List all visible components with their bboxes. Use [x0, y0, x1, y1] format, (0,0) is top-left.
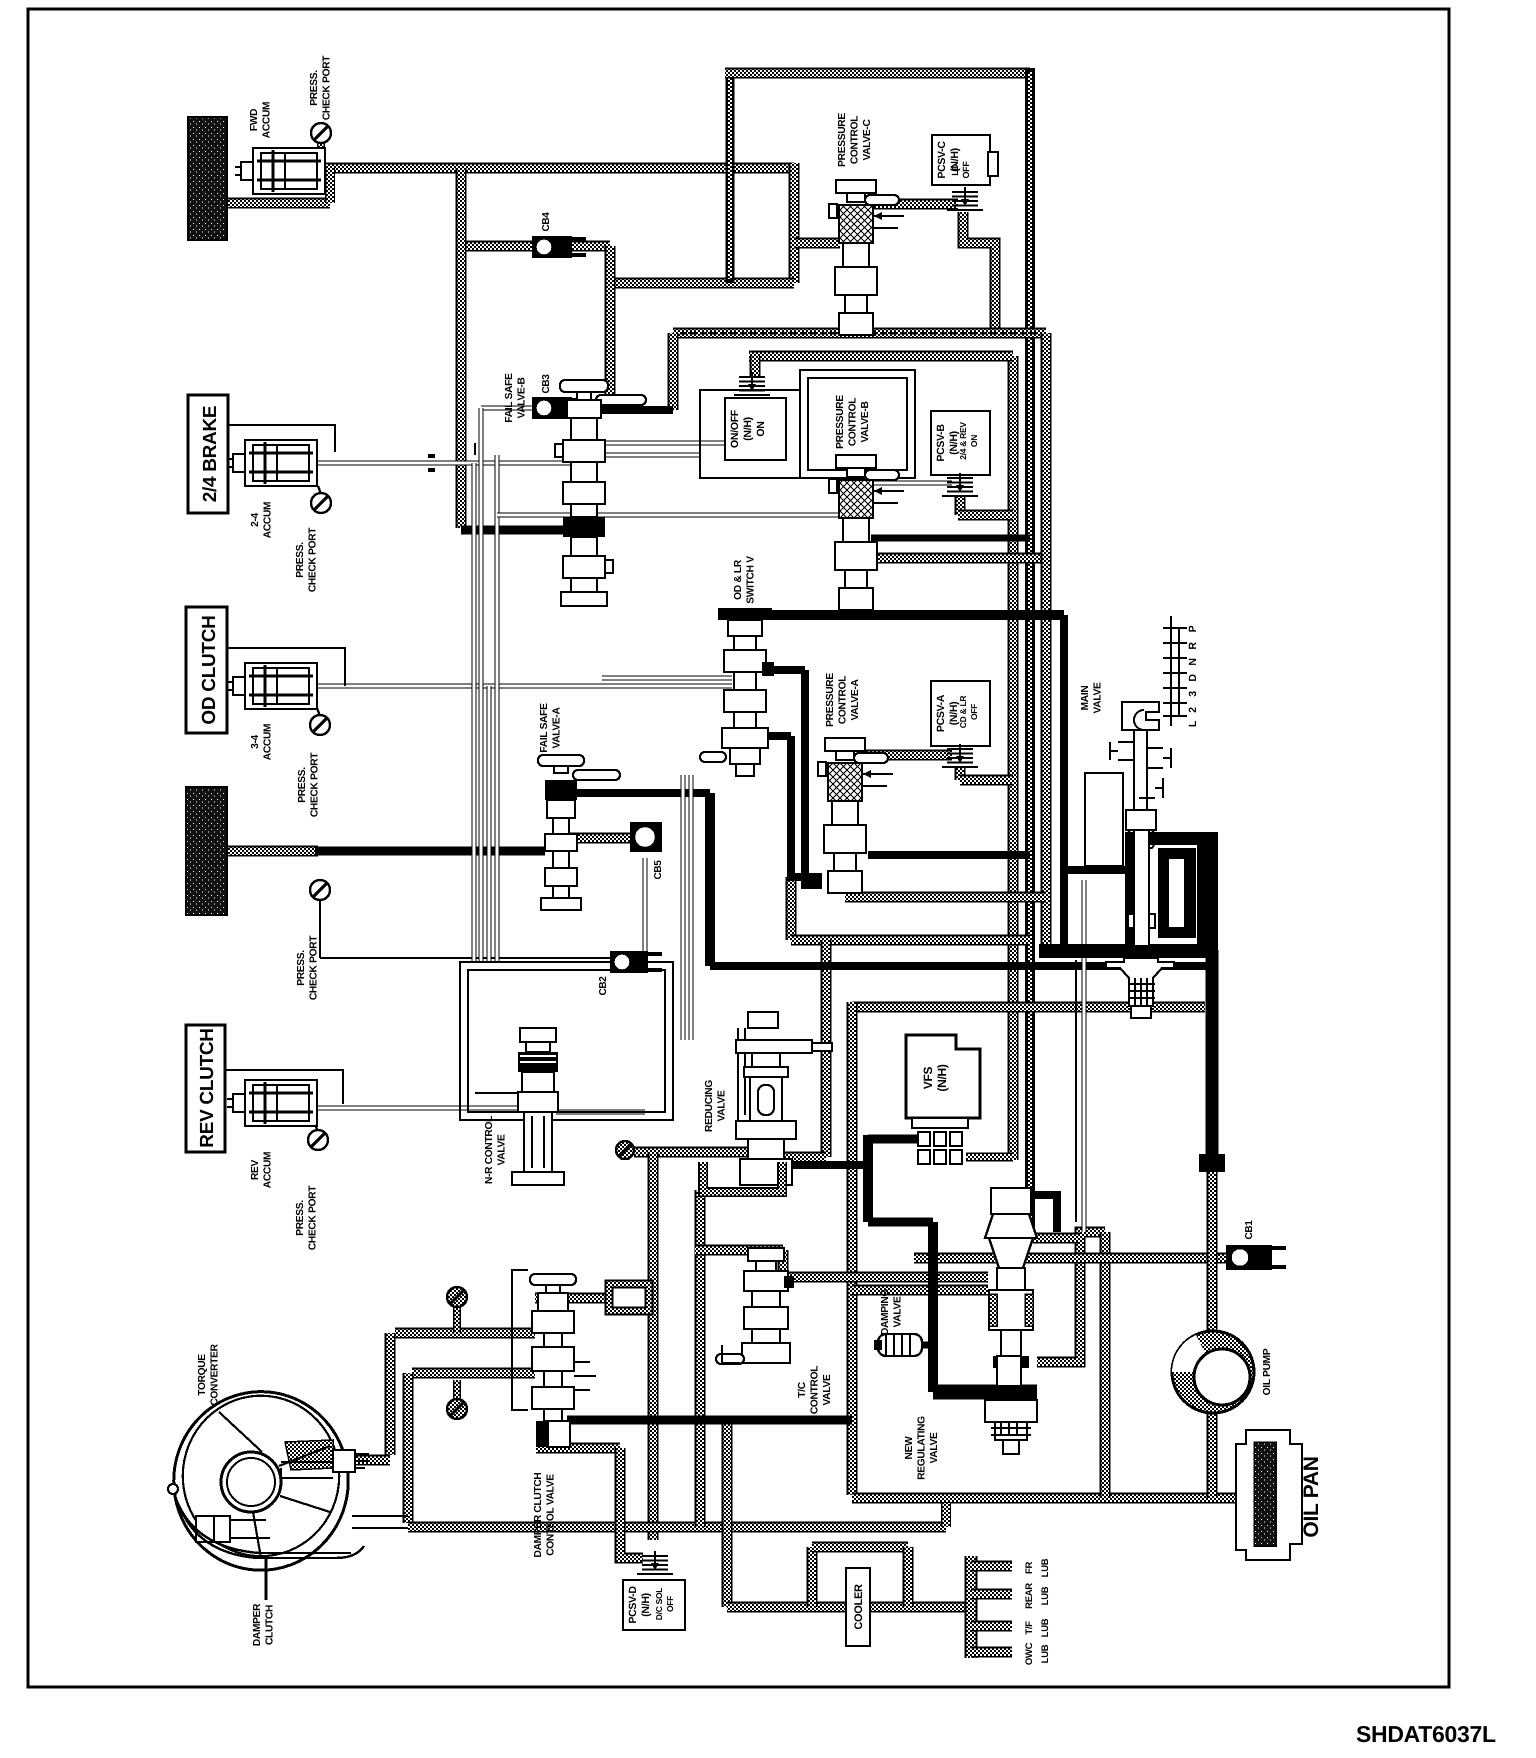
press check port (LR) [310, 880, 330, 900]
press check port (FWD) [311, 123, 331, 143]
wire: CB3 left line [481, 406, 532, 411]
lube distribution manifold [965, 1556, 978, 1658]
check ball CB5 [630, 822, 662, 852]
svg-text:LUB: LUB [1040, 1558, 1051, 1577]
svg-text:CONTROL: CONTROL [810, 1366, 821, 1414]
wire: 24 box link [228, 425, 335, 452]
accumulator: REV accum [245, 1080, 317, 1126]
wire: oil pump out [1207, 1410, 1218, 1498]
svg-text:CB2: CB2 [598, 976, 609, 996]
wire: CB4-CB3 link [605, 246, 616, 408]
press check port (3-4) [310, 715, 330, 735]
wire: press stem rev [315, 1125, 318, 1131]
press check port (damper feed) [447, 1287, 467, 1307]
wire: TC control line [567, 1416, 852, 1425]
svg-text:2/4 BRAKE: 2/4 BRAKE [200, 406, 221, 503]
svg-text:VALVE: VALVE [1093, 682, 1104, 713]
svg-text:DAMPER: DAMPER [252, 1603, 263, 1646]
accumulator: 2-4 accum [245, 440, 317, 486]
svg-text:LUB: LUB [1040, 1586, 1051, 1605]
wire: line to CB1 [914, 1253, 1228, 1264]
wire: damper valve line [535, 1293, 609, 1304]
valve: new regulating valve [991, 1188, 1031, 1214]
svg-text:(N/H): (N/H) [742, 417, 754, 441]
svg-text:REV: REV [250, 1159, 261, 1180]
svg-text:VALVE-B: VALVE-B [860, 401, 871, 442]
svg-text:T/C: T/C [797, 1381, 808, 1397]
wire: od box link [227, 648, 345, 686]
wire: block line to valve-A [315, 847, 545, 856]
svg-text:OFF: OFF [665, 1596, 675, 1612]
svg-text:CB3: CB3 [541, 374, 552, 394]
svg-text:CONTROL: CONTROL [838, 676, 849, 724]
wire: block to fail-safe A [227, 846, 318, 857]
box: PCSV-D [623, 1580, 685, 1630]
wire: valve-B black out [871, 535, 1030, 542]
wire: TC return drop [403, 1373, 414, 1523]
wire: riser to top line [726, 73, 735, 283]
wire: CB4 right line [570, 241, 610, 252]
wire: press port stem [621, 1152, 630, 1160]
svg-text:R: R [1187, 642, 1199, 650]
svg-text:PRESSURE: PRESSURE [837, 113, 848, 167]
label box: OD CLUTCH [186, 607, 227, 733]
box: PCSV-C [932, 135, 990, 185]
oil pump [1172, 1331, 1254, 1413]
wire: bundle line 1 [472, 463, 477, 962]
svg-text:PRESS.: PRESS. [297, 767, 308, 803]
wire: valve-B top feed [461, 526, 565, 535]
wire: CB4 line to junction [610, 278, 794, 289]
torque converter hatched wedge [285, 1440, 333, 1470]
wire: rev valve out [556, 1110, 645, 1115]
svg-text:PRESS.: PRESS. [295, 1200, 306, 1236]
wire: accum riser [456, 168, 467, 528]
valve: main valve [1122, 702, 1159, 730]
svg-text:CONTROL: CONTROL [850, 116, 861, 164]
wire: valve-B lower line [871, 553, 1046, 564]
svg-text:FAIL SAFE: FAIL SAFE [539, 703, 550, 753]
svg-text:D: D [1187, 674, 1199, 682]
wire: VFS solenoid bar [868, 1135, 930, 1144]
wire: PCSV-A line [865, 750, 952, 761]
svg-text:PRESS.: PRESS. [296, 950, 307, 986]
torque converter lower shell [175, 1496, 364, 1558]
wire: valve-B to PCSV-B [871, 481, 952, 486]
wire: pcv-a bottom link [787, 873, 822, 881]
svg-text:ACCUM: ACCUM [263, 724, 274, 760]
wire: reducing valve out [782, 1152, 826, 1163]
svg-text:2/4 & REV: 2/4 & REV [958, 422, 968, 460]
press check port (reducing) [616, 1141, 634, 1159]
wire: CB4 left line [466, 241, 532, 252]
wire: block to accum link [227, 198, 330, 209]
solenoid: PCSV-D [642, 1555, 668, 1557]
wire: riser reducing valve [821, 940, 832, 1157]
svg-text:VALVE-A: VALVE-A [850, 679, 861, 721]
svg-text:(N/H): (N/H) [640, 1593, 652, 1617]
svg-text:CHECK PORT: CHECK PORT [308, 527, 319, 592]
block: FWD clutch (dark) [188, 117, 227, 240]
box: PCSV-B [931, 411, 990, 475]
svg-text:VALVE: VALVE [929, 1432, 940, 1463]
wire: cooler loop left [807, 1547, 818, 1607]
wire: PCV-C to PCSV-C [872, 199, 958, 210]
wire: cooler bottom line [727, 1602, 966, 1613]
svg-text:OFF: OFF [961, 161, 971, 179]
valve: T/C control valve [748, 1248, 784, 1261]
wire: rev box link [225, 1070, 343, 1104]
wire: valve-B right line 1 [570, 441, 725, 446]
svg-text:PRESS.: PRESS. [295, 542, 306, 578]
wire: long mid line [497, 513, 845, 518]
svg-text:ON: ON [755, 421, 767, 436]
svg-text:PCSV-D: PCSV-D [627, 1586, 639, 1624]
svg-text:CB1: CB1 [1244, 1220, 1255, 1240]
svg-text:VFS: VFS [921, 1066, 935, 1089]
svg-text:DAMPER CLUTCH: DAMPER CLUTCH [533, 1473, 544, 1558]
svg-text:REAR: REAR [1024, 1583, 1035, 1609]
wire: to new regulating valve [852, 1285, 988, 1296]
solenoid: VFS [912, 1118, 968, 1128]
wire: solenoid line drop [648, 1152, 659, 1540]
valve: reducing valve [748, 1012, 778, 1028]
wire: od-lr line [602, 676, 732, 681]
wire: new reg right elbow [1037, 1232, 1105, 1362]
wire: 2-4 rev riser [1041, 333, 1052, 944]
svg-text:CHECK PORT: CHECK PORT [309, 935, 320, 1000]
box: VFS (N/H) [906, 1035, 980, 1118]
wire: main valve bottom line [1105, 1253, 1135, 1263]
svg-text:PCSV-C: PCSV-C [936, 141, 948, 179]
wire: new-reg top elbow [1000, 1195, 1057, 1232]
wire: accum bottom link [325, 168, 335, 203]
svg-text:OIL PAN: OIL PAN [1300, 1456, 1323, 1537]
wire: cooler loop right [903, 1547, 914, 1607]
svg-text:PRESSURE: PRESSURE [835, 395, 846, 449]
wire: TC feed drop [385, 1333, 396, 1455]
wire: press stem 2-4 [318, 486, 321, 494]
wire: PCSV-B feed line [958, 510, 1013, 521]
svg-text:2-4: 2-4 [250, 512, 261, 526]
wire: valve-A riser [705, 793, 715, 966]
wire: cb2 long line [320, 957, 612, 959]
svg-text:NEW: NEW [904, 1436, 915, 1460]
wire: thin pair a [681, 775, 686, 1040]
envelope: N-R control valve box [460, 962, 673, 1120]
svg-text:OD CLUTCH: OD CLUTCH [199, 615, 220, 724]
valve: pressure control valve-A [825, 738, 865, 751]
valve: pressure control valve-B [836, 455, 876, 468]
svg-text:T/F: T/F [1024, 1621, 1035, 1635]
wire: VFS lower cross line [791, 935, 1030, 946]
svg-text:PRESS.: PRESS. [309, 70, 320, 106]
accumulator: 3-4 accum [245, 663, 317, 709]
wire: TC return line [412, 1368, 535, 1379]
wire: torque converter feed [395, 1328, 535, 1339]
check ball CB2 [610, 951, 648, 973]
wire: damping valve link [920, 1342, 933, 1349]
wire: FWD line drop [789, 163, 800, 283]
svg-text:CONVERTER: CONVERTER [210, 1343, 221, 1405]
svg-text:OD & LR: OD & LR [733, 559, 744, 600]
loops: main valve black frame [1125, 832, 1218, 958]
wire: ON-OFF solenoid drop [750, 356, 761, 378]
svg-text:LD: LD [950, 164, 960, 176]
svg-text:OIL PUMP: OIL PUMP [1262, 1348, 1273, 1395]
svg-text:FAIL SAFE: FAIL SAFE [504, 373, 515, 423]
accumulator: FWD accum [253, 148, 325, 194]
wire: switch valve out 1 [765, 666, 805, 674]
pocket under reducing valve [703, 1162, 782, 1192]
box: ON/OFF [725, 398, 786, 460]
wire: TC ctl loop top [695, 1245, 783, 1256]
press check port (REV) [308, 1130, 328, 1150]
wire: oil pump feed [1207, 1166, 1218, 1336]
solenoid: PCSV-C [952, 191, 978, 193]
wire: mid distribution line [673, 328, 1046, 339]
wire: 2-4 accum line [317, 461, 570, 466]
wire: cooler loop top [812, 1542, 908, 1553]
leader: torque converter [219, 1412, 262, 1452]
wire: fail-safe B riser [668, 333, 679, 410]
svg-text:L: L [1187, 720, 1199, 727]
svg-text:CHECK PORT: CHECK PORT [322, 55, 333, 120]
svg-text:N-R CONTROL: N-R CONTROL [484, 1116, 495, 1184]
svg-text:LUB: LUB [1040, 1618, 1051, 1637]
main valve side white chamber [1085, 773, 1123, 866]
svg-text:CD & LR: CD & LR [958, 696, 968, 729]
wire: cooler supply line [408, 1522, 946, 1533]
wire: valve-A to CB5 [565, 833, 634, 844]
check ball CB1 [1226, 1245, 1272, 1270]
wire: fail-safe B side port [584, 406, 673, 414]
wire: damper loop ring [609, 1284, 649, 1311]
oil pan [1236, 1430, 1302, 1560]
valve: OD & LR switch valve [718, 608, 772, 620]
wire: new-reg bottom bar [933, 1385, 1037, 1400]
valve: damper clutch control valve [512, 1270, 528, 1410]
valve: main valve lower tee [1106, 958, 1174, 1006]
valve: pressure control valve-C [836, 180, 876, 193]
wire: press4 stem [319, 900, 321, 958]
svg-text:CLUTCH: CLUTCH [265, 1605, 276, 1645]
wire: cooler line link [941, 1503, 951, 1527]
wire: main line-pressure riser [1025, 68, 1035, 1240]
svg-text:PCSV-B: PCSV-B [935, 424, 947, 462]
wire: ON-OFF solenoid line [749, 351, 1013, 362]
svg-text:2: 2 [1187, 707, 1199, 713]
node: tick [428, 456, 435, 470]
wire: OD-LR switch supply [725, 610, 1064, 620]
press check port (2-4) [311, 493, 331, 513]
wire: TC ctl loop drop [778, 1250, 789, 1277]
solenoid: ON/OFF [739, 376, 765, 378]
wire: cooler return drop [722, 1420, 733, 1607]
torque converter [174, 1392, 348, 1571]
svg-text:VALVE: VALVE [717, 1090, 728, 1121]
svg-text:VALVE-C: VALVE-C [862, 119, 873, 161]
svg-text:LUB: LUB [1040, 1644, 1051, 1663]
wire: bundle line 3 [487, 686, 492, 962]
wire: PCSV-C drop [963, 212, 995, 333]
wire: bundle line 4 [495, 455, 500, 962]
svg-text:REDUCING: REDUCING [704, 1080, 715, 1132]
svg-text:CB4: CB4 [541, 212, 552, 232]
wire: FWD accum supply line [310, 163, 794, 174]
wire: branch to pressure control valve-C [794, 238, 840, 249]
torque converter internals [253, 1446, 330, 1558]
wire: VFS to new-reg [868, 1218, 933, 1227]
wire: switch valve out 2 [762, 732, 791, 740]
svg-text:CHECK PORT: CHECK PORT [310, 752, 321, 817]
press check port (TC return) [447, 1399, 467, 1419]
block: LR brake (dark) [186, 787, 227, 915]
tc outlet channel [352, 1516, 408, 1528]
wire: valve-A side port [570, 789, 710, 797]
wire: pcv-a right black [868, 851, 1030, 859]
svg-text:TORQUE: TORQUE [197, 1354, 208, 1396]
svg-text:P: P [1187, 625, 1199, 632]
svg-text:FR: FR [1024, 1562, 1035, 1575]
svg-text:PCSV-A: PCSV-A [935, 694, 947, 732]
wire: 3-4 accum line [317, 684, 732, 689]
solenoid: PCSV-B [947, 477, 973, 479]
svg-text:ACCUM: ACCUM [262, 102, 273, 138]
wire: press stem 3-4 [317, 708, 320, 716]
wire: PCSV-B drop [955, 497, 966, 515]
wire: bundle line 2 [479, 408, 484, 962]
valve: main valve channel [1134, 830, 1149, 946]
torque converter hub blocks [196, 1516, 214, 1542]
svg-text:REGULATING: REGULATING [917, 1416, 928, 1480]
wire: TC press stem 2 [453, 1380, 461, 1400]
svg-text:ON: ON [969, 435, 979, 447]
svg-text:OFF: OFF [969, 704, 979, 720]
wire: valve-B left thin [474, 443, 476, 455]
svg-text:MAIN: MAIN [1080, 686, 1091, 711]
wire: VFS loop top [852, 1002, 1205, 1013]
svg-text:VALVE: VALVE [822, 1374, 833, 1405]
svg-text:SHDAT6037L: SHDAT6037L [1356, 1721, 1496, 1747]
svg-text:ON/OFF: ON/OFF [729, 409, 741, 448]
loop bottom band [1039, 944, 1218, 958]
valve: N-R control valve [520, 1028, 556, 1042]
wire: hatch drop to VFS area [786, 877, 797, 940]
svg-text:PRESSURE: PRESSURE [825, 673, 836, 727]
junction block on CB1 riser [1199, 1154, 1225, 1172]
wire: press stem fwd [317, 143, 325, 166]
wire: low black manifold [710, 962, 1218, 970]
svg-text:REV CLUTCH: REV CLUTCH [197, 1028, 218, 1147]
svg-text:3: 3 [1187, 691, 1199, 697]
svg-text:SWITCH V: SWITCH V [746, 556, 757, 604]
solenoid: PCSV-A [947, 748, 973, 750]
wire: rev accum line [317, 1106, 520, 1111]
wire: main-v thin drop [1082, 880, 1087, 1232]
svg-text:CHECK PORT: CHECK PORT [308, 1185, 319, 1250]
wire: cooler feed drop [1100, 1232, 1111, 1498]
svg-text:CONTROL: CONTROL [848, 398, 859, 446]
wire: thin drop 2 [1075, 960, 1077, 1222]
wire: bottom main line to oil pan [852, 1493, 1262, 1504]
svg-text:CB5: CB5 [653, 860, 664, 880]
svg-text:3-4: 3-4 [250, 734, 261, 748]
wire: to new-reg left [770, 1272, 988, 1283]
wire: right drop [1060, 615, 1068, 951]
wire: thin pair b [689, 775, 694, 1040]
wire: new-reg drop [928, 1222, 938, 1392]
wire: reduce-to-cooler drop [695, 1190, 706, 1527]
label box: REV CLUTCH [186, 1025, 225, 1152]
tc left nub [168, 1484, 178, 1494]
svg-text:VALVE: VALVE [497, 1134, 508, 1165]
box: PCSV-A [931, 681, 990, 746]
svg-text:CONTROL VALVE: CONTROL VALVE [546, 1474, 557, 1556]
tab on PCSV-C [988, 152, 998, 176]
wire: damper press stem [453, 1305, 461, 1333]
svg-text:DAMPING: DAMPING [880, 1289, 891, 1335]
svg-text:ACCUM: ACCUM [263, 502, 274, 538]
wire: PCSV-A drop [955, 768, 966, 780]
svg-text:VALVE: VALVE [893, 1296, 904, 1327]
wire: switch drop 1 [805, 670, 822, 885]
wire: CB1 riser [1206, 950, 1219, 1160]
wire: top distribution line [725, 68, 1030, 79]
svg-text:OWC: OWC [1024, 1642, 1035, 1665]
wire: VFS black L [863, 1135, 873, 1222]
svg-text:ACCUM: ACCUM [263, 1152, 274, 1188]
wire: cb5-cb2 link [643, 858, 648, 958]
svg-text:VALVE-A: VALVE-A [552, 707, 563, 749]
wire: switch drop 2 [787, 736, 795, 877]
svg-text:D/C SOL: D/C SOL [654, 1588, 664, 1620]
svg-text:COOLER: COOLER [853, 1584, 865, 1630]
wire: VFS loop left [847, 1002, 858, 1495]
check ball CB3 [532, 397, 572, 419]
wire: nr-top line [475, 1092, 530, 1094]
label box: 2/4 BRAKE [188, 395, 228, 513]
wire: valve-B right line 2 [570, 453, 700, 458]
wire: solenoid feed riser [1008, 356, 1019, 1160]
wire: PCV-A bottom line [845, 892, 1046, 903]
box: COOLER [846, 1568, 870, 1646]
valve: fail safe valve-B [560, 380, 608, 392]
svg-text:(N/H): (N/H) [935, 1064, 949, 1091]
valve: fail safe valve-A [538, 755, 584, 766]
wire: new reg top branch [1033, 1233, 1080, 1244]
manual lever position gate [1171, 616, 1179, 726]
check ball CB4 [532, 236, 572, 258]
wire: PCSV-A feed [960, 775, 1013, 786]
wire: loop feed line [1064, 866, 1130, 874]
svg-text:FWD: FWD [249, 109, 260, 131]
leader: damper clutch [265, 1556, 268, 1600]
wire: PCSV-D feed drop [620, 1448, 643, 1558]
wire: TC inlet [335, 1455, 390, 1466]
wire: damper valve bottom out [536, 1443, 620, 1454]
svg-text:VALVE-B: VALVE-B [517, 377, 528, 418]
svg-text:N: N [1187, 658, 1199, 665]
envelope: ON/OFF box outer [700, 390, 800, 478]
wire: reducing to VFS [790, 1161, 868, 1169]
envelope: pressure control valve-B box [800, 370, 915, 478]
wire: reducing valve feed [634, 1147, 750, 1158]
valve: damping valve [878, 1334, 922, 1356]
